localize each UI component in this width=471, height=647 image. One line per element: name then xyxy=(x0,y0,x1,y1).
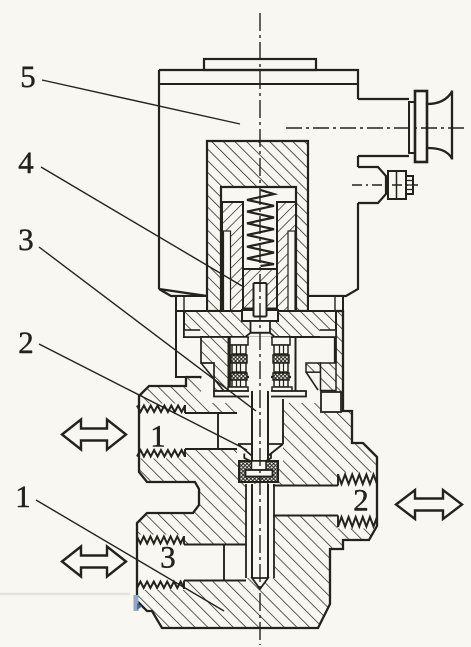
bonnet flange right edge extension xyxy=(335,337,337,363)
bonnet tube right step xyxy=(306,363,321,372)
port 1 threads xyxy=(137,406,185,413)
port 1 channel lines xyxy=(185,405,237,457)
leader 4 xyxy=(41,167,242,286)
bonnet bore cutout xyxy=(201,377,321,403)
valve plug chamfer right xyxy=(266,444,283,461)
label 1 xyxy=(18,487,29,507)
seal washer xyxy=(246,470,273,477)
stem lower xyxy=(252,484,268,578)
horn connector flange xyxy=(415,91,427,162)
valve body outline xyxy=(137,311,377,628)
watermark streak xyxy=(0,593,130,596)
bonnet tube inner wall lines xyxy=(229,337,296,391)
label 5 xyxy=(22,67,34,88)
port label 1 xyxy=(153,426,164,446)
sleeve nut neck xyxy=(251,321,271,333)
stem bore below seat xyxy=(246,484,274,578)
leader 3 xyxy=(39,247,256,411)
valve plug chamfer left xyxy=(238,444,252,462)
plunger tube wall left xyxy=(222,202,243,311)
lower connector tip xyxy=(406,176,413,194)
horn connector stem xyxy=(358,99,409,156)
collar right xyxy=(308,296,343,311)
needle tip xyxy=(252,578,268,589)
plunger tube wall right xyxy=(277,202,296,311)
spring xyxy=(247,190,274,266)
port 3 threads xyxy=(137,537,184,544)
label 4 xyxy=(19,153,33,173)
leader 2 xyxy=(39,344,247,450)
bonnet flange xyxy=(184,311,336,337)
port 3 channel xyxy=(137,535,247,591)
air gap slot left xyxy=(224,231,231,311)
lower connector trapezoid xyxy=(358,167,386,203)
left guard column xyxy=(176,311,186,377)
packing stack left xyxy=(230,337,248,345)
flange corner notch left xyxy=(185,330,200,336)
port 3 channel lines xyxy=(184,536,246,589)
flow arrow port2 xyxy=(396,490,462,519)
seal stem slot xyxy=(252,461,267,470)
packing stack right xyxy=(272,337,290,345)
top cap xyxy=(204,59,316,70)
housing top inner line xyxy=(160,83,357,85)
core block (top + legs) xyxy=(207,141,308,311)
label 3 xyxy=(20,229,33,250)
stem chamber xyxy=(237,400,283,461)
horn bell xyxy=(427,91,452,160)
plunger bottom xyxy=(243,269,277,309)
flow arrow port3 xyxy=(62,547,126,577)
stem main xyxy=(249,337,271,457)
right notch xyxy=(321,392,341,412)
label 2 xyxy=(20,332,32,353)
air gap slot right xyxy=(288,231,295,311)
port 2 threads xyxy=(338,475,377,485)
horn connector shoulder xyxy=(409,102,415,153)
blue mark xyxy=(134,595,139,611)
sleeve nut crossbar xyxy=(242,310,278,321)
port 1 channel xyxy=(137,404,237,459)
solenoid housing outline xyxy=(159,70,358,296)
bonnet tube right column xyxy=(321,363,337,391)
port 2 channel xyxy=(273,473,377,529)
leader 1 xyxy=(36,500,224,611)
port 2 channel lines xyxy=(273,474,338,527)
stem upper xyxy=(254,283,267,317)
collar left xyxy=(176,296,207,311)
port label 2 xyxy=(355,490,367,511)
gland plate xyxy=(214,391,306,397)
sleeve nut skirt xyxy=(245,333,276,338)
lower connector centre line xyxy=(352,184,418,186)
bonnet tube left xyxy=(201,337,230,391)
port label 3 xyxy=(162,547,175,568)
vertical centre line xyxy=(259,13,261,645)
flow arrow port1 xyxy=(62,420,126,450)
lower connector fitting xyxy=(388,171,406,199)
valve body hatch xyxy=(137,311,377,628)
leader 5 xyxy=(42,80,240,124)
flange corner notch right xyxy=(320,330,335,336)
horn centre line xyxy=(286,127,467,129)
bonnet cone right xyxy=(306,372,318,390)
seat seal (dark packing) xyxy=(239,461,278,482)
